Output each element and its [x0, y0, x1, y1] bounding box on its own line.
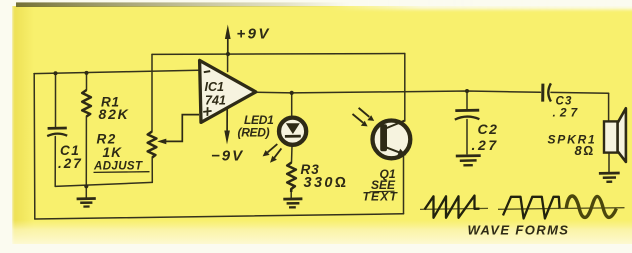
wire: C2 top lead — [466, 91, 468, 110]
Q1 light arrows — [353, 108, 375, 127]
R2 wiper arrow from + input — [157, 115, 199, 145]
node junction: C1 top at inverting-input bus — [54, 71, 58, 75]
wire: +9V rail — [152, 53, 405, 56]
op-amp minus sign — [204, 71, 210, 72]
Q1 base bar — [380, 124, 387, 151]
node junction: C2 branch on output bus — [465, 89, 469, 93]
wire: inverting-input node horizontal — [34, 70, 198, 73]
wire: C1 bottom lead — [54, 137, 56, 187]
ground under R1/C1/R2 bus — [77, 199, 96, 207]
svg-text:WAVE FORMS: WAVE FORMS — [468, 223, 570, 238]
svg-text:ADJUST: ADJUST — [93, 161, 143, 173]
svg-text:330Ω: 330Ω — [304, 175, 349, 191]
potentiometer R2 — [148, 132, 157, 158]
svg-text:8Ω: 8Ω — [575, 143, 595, 158]
white sliver top right — [330, 0, 632, 10]
wire: speaker drop — [608, 93, 610, 121]
node junction: LED1 branch on output bus — [290, 91, 294, 95]
wire: C2 bottom lead — [466, 120, 468, 154]
wire: R1 ground stub — [85, 186, 87, 198]
wire: R1 top lead — [86, 73, 88, 90]
capacitor C3 — [543, 83, 551, 101]
Q1 collector line — [386, 121, 405, 129]
wire: Q1 emitter drop — [403, 153, 405, 214]
phototransistor Q1 — [373, 120, 411, 158]
waveform: sine baseline — [559, 207, 625, 210]
wire: Q1 collector drop — [404, 54, 406, 122]
speaker SPKR1 — [604, 121, 618, 152]
op-amp plus sign — [203, 107, 211, 116]
svg-text:.27: .27 — [553, 106, 582, 120]
LED LED1 — [279, 118, 306, 145]
wire: R1 bottom lead — [85, 117, 87, 187]
svg-text:.27: .27 — [58, 156, 83, 171]
wire: V+ pin stub — [227, 54, 229, 72]
left edge shading — [12, 6, 34, 244]
waveform: sawtooth baseline — [420, 208, 488, 209]
svg-text:C2: C2 — [478, 121, 499, 137]
wire: speaker ground stub — [608, 153, 610, 172]
op-amp U1 triangle — [200, 60, 256, 122]
-9V supply arrow — [224, 109, 230, 145]
ground under speaker — [599, 173, 620, 182]
soft left white strip — [0, 0, 13, 253]
capacitor C2 — [455, 110, 480, 119]
wire: output bus — [256, 91, 541, 93]
svg-text:82K: 82K — [99, 106, 130, 122]
svg-text:TEXT: TEXT — [363, 190, 399, 204]
bottom fade of card — [12, 220, 632, 244]
wire: LED1 top lead — [291, 93, 293, 117]
wire: R3 ground stub — [290, 192, 292, 198]
svg-text:1K: 1K — [103, 145, 123, 160]
wire: left frame vertical — [33, 74, 36, 219]
wire: C1 top lead — [55, 73, 57, 127]
svg-text:−9V: −9V — [211, 148, 244, 165]
node junction: +9V rail / V+ pin — [226, 52, 230, 56]
node junction: R1 bottom at ground bus — [84, 184, 88, 188]
wire: C3 to speaker — [551, 91, 609, 94]
+9V supply arrow — [225, 25, 231, 55]
wire: bottom rail — [35, 214, 404, 219]
svg-text:741: 741 — [205, 94, 226, 108]
node junction: R1 top at inverting-input bus — [85, 71, 89, 75]
svg-text:IC1: IC1 — [205, 80, 225, 94]
waveform: trapezoid wave — [503, 197, 560, 219]
wire: R2 top lead — [151, 54, 153, 131]
resistor R1 — [82, 90, 91, 117]
waveform: sawtooth — [425, 196, 480, 218]
resistor R3 — [287, 163, 296, 193]
svg-text:.27: .27 — [472, 137, 499, 153]
waveform: trapezoid baseline — [498, 207, 560, 210]
wire: ground bus under C1 R1 R2 — [55, 182, 152, 186]
LED1 light arrows — [263, 144, 282, 163]
Q1 emitter line with arrow — [386, 147, 406, 155]
wire: R2 bottom lead — [151, 158, 153, 183]
ground under R3 — [283, 199, 302, 208]
waveform: sine wave — [566, 196, 616, 217]
capacitor C1 — [47, 128, 67, 136]
ground under C2 — [456, 156, 481, 166]
svg-text:(RED): (RED) — [238, 126, 270, 140]
svg-text:+9V: +9V — [237, 26, 271, 43]
wire: LED1 bottom lead — [291, 146, 294, 163]
dark strip at top — [16, 2, 350, 7]
